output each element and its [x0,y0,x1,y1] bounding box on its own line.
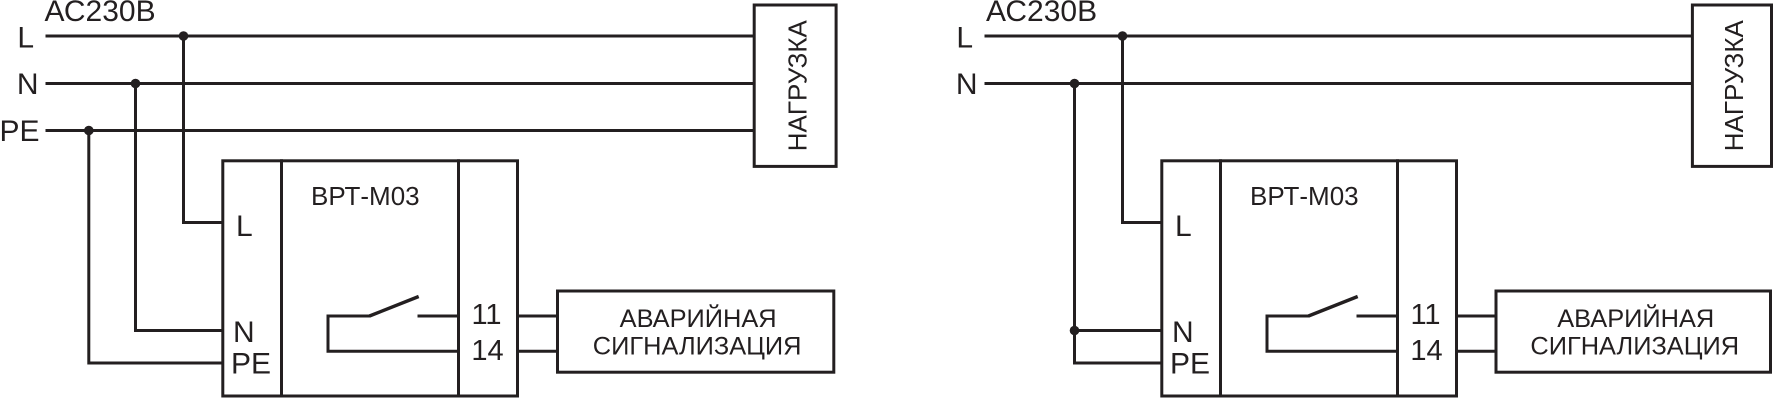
svg-text:L: L [236,210,253,243]
svg-text:PE: PE [0,115,40,148]
svg-text:L: L [17,22,34,55]
svg-text:НАГРУЗКА: НАГРУЗКА [782,19,812,151]
svg-text:PE: PE [231,347,271,380]
svg-text:N: N [233,316,255,349]
svg-text:N: N [1172,316,1194,349]
svg-text:АС230В: АС230В [986,0,1097,28]
svg-text:L: L [1175,210,1192,243]
svg-text:АВАРИЙНАЯ: АВАРИЙНАЯ [1557,303,1714,333]
svg-text:PE: PE [1170,347,1210,380]
svg-text:АС230В: АС230В [45,0,156,28]
svg-text:СИГНАЛИЗАЦИЯ: СИГНАЛИЗАЦИЯ [593,332,802,360]
svg-text:11: 11 [471,299,501,331]
svg-text:НАГРУЗКА: НАГРУЗКА [1719,19,1749,151]
svg-text:N: N [17,68,39,101]
svg-text:СИГНАЛИЗАЦИЯ: СИГНАЛИЗАЦИЯ [1530,332,1739,360]
svg-text:N: N [956,68,978,101]
svg-text:L: L [956,22,973,55]
svg-text:11: 11 [1410,299,1440,331]
svg-text:АВАРИЙНАЯ: АВАРИЙНАЯ [620,303,777,333]
svg-text:ВРТ-М03: ВРТ-М03 [311,181,420,211]
svg-text:14: 14 [471,335,503,367]
svg-text:ВРТ-М03: ВРТ-М03 [1250,181,1359,211]
svg-text:14: 14 [1410,335,1442,367]
